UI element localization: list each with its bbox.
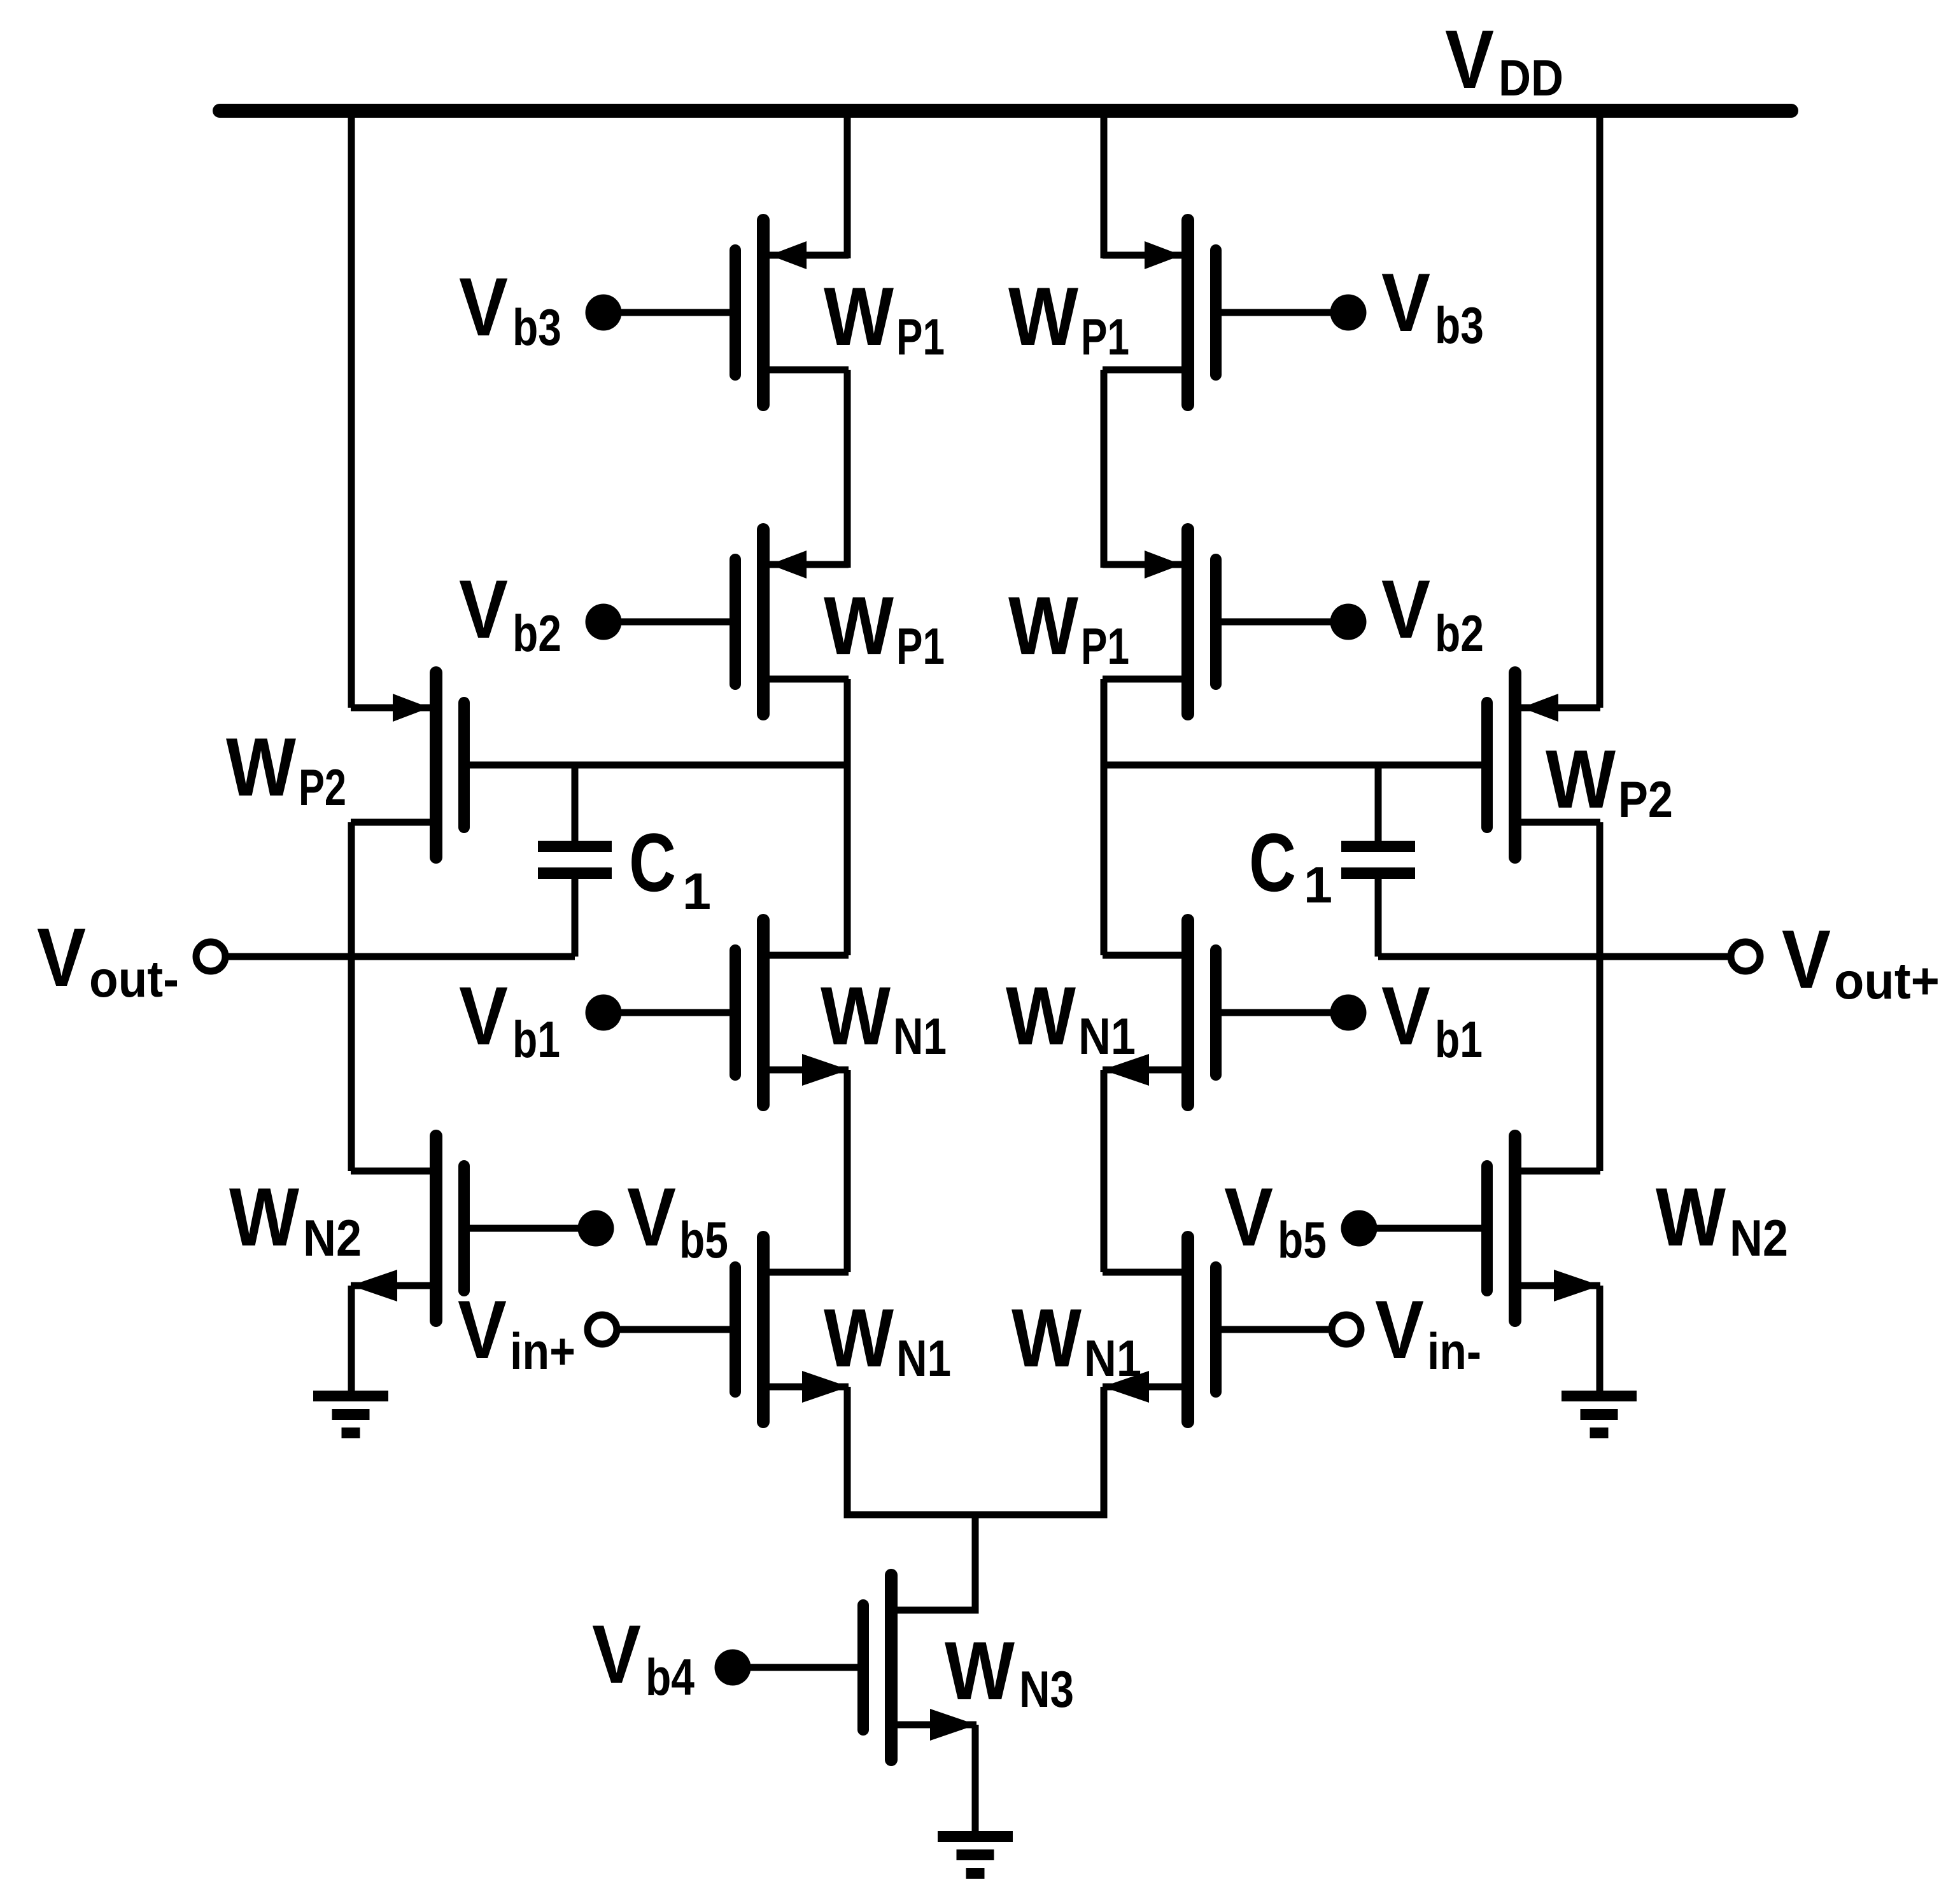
node Vb2 right dot [1330, 604, 1367, 640]
WP2 right label [1546, 733, 1673, 829]
gate wire WP2 left from cascode node [463, 762, 847, 769]
Vb2 right label [1381, 563, 1484, 663]
capacitor C1 right bottom plate [1341, 867, 1415, 879]
WP2 left label [226, 720, 346, 817]
wire M2 drain to WN1 left drain (first stage output node left) [844, 679, 851, 955]
gate wire M2 to Vb2 [603, 619, 735, 626]
transistor WN1 left cascode (M5, NMOS, gate Vb1) [735, 920, 849, 1105]
svg-text:P2: P2 [1618, 771, 1673, 829]
WP1 lower right label [1008, 579, 1129, 675]
wire M5 source to input pair drain left [844, 1070, 851, 1272]
svg-text:V: V [627, 1170, 676, 1263]
svg-text:V: V [1381, 256, 1430, 349]
terminal Vout- open circle [196, 942, 225, 971]
svg-text:in+: in+ [510, 1323, 575, 1380]
wire VDD rail to WP2 right source [1597, 111, 1604, 708]
transistor WP2 left (M9, PMOS output stage) [351, 673, 464, 857]
gate wire WP2 right from cascode node [1104, 762, 1488, 769]
gate wire M11 to Vb4 [733, 1664, 863, 1671]
Vb2 left label [459, 563, 561, 663]
svg-text:C: C [629, 816, 676, 909]
svg-text:V: V [458, 1283, 507, 1376]
gate wire M7 to Vin+ [617, 1326, 735, 1333]
wire WN2 left source to ground [348, 1286, 355, 1394]
wire C1 right top stub [1375, 765, 1382, 843]
transistor WN3 tail current source (M11, NMOS, gate Vb4) [863, 1575, 976, 1760]
node Vb3 right dot [1330, 295, 1367, 331]
svg-text:out-: out- [89, 951, 179, 1008]
svg-text:V: V [1381, 563, 1430, 656]
terminal Vin- open circle [1332, 1315, 1361, 1344]
svg-text:b2: b2 [512, 605, 561, 663]
WP1 lower left label [824, 579, 945, 675]
wire WN2 right source to ground [1597, 1286, 1604, 1394]
node Vb5 left dot [578, 1210, 614, 1247]
wire WN3 source to ground [972, 1725, 979, 1834]
Vb4 label [592, 1608, 694, 1706]
wire M3 drain to M4 source [1101, 370, 1108, 568]
wire VDD rail to WP1 upper left source [844, 111, 851, 258]
svg-text:W: W [1012, 1291, 1082, 1384]
WN2 left label [229, 1170, 362, 1267]
WP1 upper right label [1008, 270, 1129, 366]
wire input pair left source to tail node [847, 1387, 975, 1515]
svg-text:V: V [1381, 969, 1430, 1062]
wire C1 left top stub [572, 765, 579, 843]
svg-text:b1: b1 [1435, 1011, 1483, 1069]
gate wire M8 to Vin- [1216, 1326, 1331, 1333]
transistor WP1 upper right (M3, PMOS cascode, gate Vb3) [1103, 220, 1216, 405]
svg-text:W: W [229, 1170, 299, 1263]
transistor WP2 right (M12, PMOS output stage) [1487, 673, 1600, 857]
Vb5 right label [1224, 1170, 1327, 1269]
svg-text:C: C [1249, 816, 1296, 909]
svg-text:V: V [459, 969, 508, 1062]
WN3 label [945, 1624, 1074, 1718]
Vb3 right label [1381, 256, 1484, 354]
svg-text:1: 1 [682, 863, 711, 920]
svg-text:N1: N1 [1078, 1008, 1136, 1065]
svg-text:N1: N1 [893, 1008, 947, 1065]
svg-text:b3: b3 [512, 299, 561, 356]
wire Vout- line [225, 953, 575, 960]
svg-text:V: V [1782, 913, 1831, 1006]
node Vb2 left dot [586, 604, 622, 640]
gate wire M1 to Vb3 [603, 309, 735, 316]
Vb5 left label [627, 1170, 728, 1269]
svg-text:W: W [226, 720, 296, 813]
gate wire M4 to Vb2 [1216, 619, 1348, 626]
svg-text:V: V [459, 260, 508, 353]
svg-text:W: W [1656, 1170, 1726, 1263]
capacitor C1 left top plate [538, 841, 612, 852]
transistor WN1 input left (M7, NMOS, gate Vin+) [735, 1237, 849, 1422]
transistor WN2 right (M13, NMOS output stage) [1487, 1136, 1600, 1321]
node Vb3 left dot [586, 295, 622, 331]
wire WP2 right drain down to output node [1597, 822, 1604, 1171]
WN1 input left label [824, 1291, 951, 1387]
wire M4 drain to WN1 right drain (first stage output node right) [1101, 679, 1108, 955]
wire VDD rail to WP2 left source [348, 111, 355, 708]
transistor WN1 right cascode (M6, NMOS, gate Vb1) [1103, 920, 1216, 1105]
svg-text:V: V [37, 911, 86, 1004]
transistor WN2 left (M10, NMOS output stage) [351, 1136, 464, 1321]
wire C1 left bottom stub [572, 873, 579, 957]
svg-text:V: V [1375, 1283, 1424, 1376]
svg-text:P1: P1 [896, 309, 945, 366]
C1 left label [629, 816, 711, 920]
VDD power rail [220, 104, 1791, 118]
capacitor C1 right top plate [1341, 841, 1415, 852]
svg-text:V: V [1224, 1170, 1273, 1263]
C1 right label [1249, 816, 1332, 914]
svg-text:W: W [1546, 733, 1616, 825]
svg-text:W: W [824, 1291, 894, 1384]
svg-text:b4: b4 [645, 1649, 694, 1706]
gate wire WN2 left to Vb5 [463, 1225, 596, 1232]
wire M6 source to input pair drain right [1101, 1070, 1108, 1272]
svg-text:V: V [592, 1608, 641, 1701]
Vb3 left label [459, 260, 561, 356]
node Vb1 left dot [586, 995, 622, 1031]
Vb1 left label [459, 969, 560, 1069]
svg-text:in-: in- [1427, 1323, 1481, 1380]
transistor WN1 input right (M8, NMOS, gate Vin-) [1103, 1237, 1216, 1422]
gate wire M5 to Vb1 [603, 1009, 735, 1016]
svg-text:W: W [821, 969, 891, 1062]
svg-text:out+: out+ [1834, 953, 1940, 1010]
VDD label [1445, 13, 1563, 107]
svg-text:b3: b3 [1435, 297, 1484, 354]
svg-text:N3: N3 [1019, 1661, 1074, 1718]
node Vb5 right dot [1341, 1210, 1378, 1247]
Vin+ label [458, 1283, 575, 1380]
svg-text:P1: P1 [896, 618, 945, 675]
svg-text:W: W [1008, 270, 1078, 363]
svg-text:V: V [1445, 13, 1494, 106]
terminal Vin+ open circle [588, 1315, 617, 1344]
svg-text:b5: b5 [1278, 1212, 1327, 1269]
svg-text:V: V [459, 563, 508, 656]
transistor WP1 lower right (M4, PMOS cascode, gate Vb2) [1103, 530, 1216, 714]
svg-text:b5: b5 [679, 1212, 728, 1269]
gate wire M3 to Vb3 [1216, 309, 1348, 316]
Vout- label [37, 911, 179, 1008]
ground symbol left [313, 1391, 388, 1438]
ground symbol right [1562, 1391, 1637, 1438]
svg-text:W: W [945, 1624, 1015, 1717]
wire Vout+ line [1378, 953, 1731, 960]
svg-text:N2: N2 [1730, 1210, 1788, 1267]
svg-text:P1: P1 [1081, 618, 1129, 675]
svg-text:W: W [1006, 969, 1076, 1062]
svg-text:DD: DD [1498, 50, 1563, 107]
wire VDD rail to WP1 upper right source [1101, 111, 1108, 258]
svg-text:W: W [1008, 579, 1078, 672]
terminal Vout+ open circle [1731, 942, 1760, 971]
svg-text:1: 1 [1304, 857, 1332, 914]
wire tail node down to WN3 drain [898, 1515, 975, 1610]
WN1 left cascode label [821, 969, 947, 1065]
wire C1 right bottom stub [1375, 873, 1382, 957]
gate wire WN2 right to Vb5 [1359, 1225, 1488, 1232]
wire WP2 left drain down to output node [348, 822, 355, 1171]
gate wire M6 to Vb1 [1216, 1009, 1348, 1016]
WP1 upper left label [824, 270, 945, 366]
svg-text:W: W [824, 270, 894, 363]
capacitor C1 left bottom plate [538, 867, 612, 879]
ground symbol bottom [938, 1831, 1013, 1879]
Vin- label [1375, 1283, 1481, 1380]
svg-text:b1: b1 [512, 1011, 560, 1069]
wire M1 drain to M2 source [844, 370, 851, 568]
wire input pair right source to tail node [975, 1387, 1104, 1515]
node Vb1 right dot [1330, 995, 1367, 1031]
svg-text:W: W [824, 579, 894, 672]
WN2 right label [1656, 1170, 1788, 1267]
svg-text:P2: P2 [299, 759, 346, 817]
WN1 right cascode label [1006, 969, 1136, 1065]
WN1 input right label [1012, 1291, 1141, 1387]
svg-text:b2: b2 [1435, 605, 1484, 663]
transistor WP1 lower left (M2, PMOS cascode, gate Vb2) [735, 530, 849, 714]
svg-text:N2: N2 [303, 1210, 362, 1267]
transistor WP1 upper left (M1, PMOS cascode, gate Vb3) [735, 220, 849, 405]
svg-text:N1: N1 [896, 1330, 951, 1387]
Vout+ label [1782, 913, 1940, 1010]
svg-text:P1: P1 [1081, 309, 1129, 366]
Vb1 right label [1381, 969, 1483, 1069]
svg-text:N1: N1 [1084, 1330, 1141, 1387]
node Vb4 dot [715, 1650, 751, 1686]
